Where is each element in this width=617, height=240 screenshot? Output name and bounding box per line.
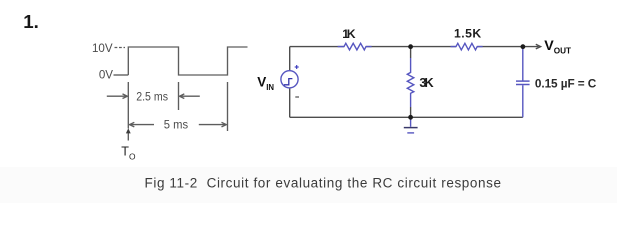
svg-text:5 ms: 5 ms [164,118,188,132]
svg-text:TO: TO [121,145,136,162]
svg-text:VOUT: VOUT [544,38,571,55]
svg-text:1.: 1. [23,11,39,32]
svg-text:10V: 10V [92,42,113,55]
svg-text:1.5K: 1.5K [454,27,481,41]
svg-text:1K: 1K [342,27,355,41]
svg-text:3K: 3K [419,75,434,90]
svg-text:VIN: VIN [257,75,274,93]
svg-text:0V: 0V [99,69,113,82]
svg-text:0.15 µF = C: 0.15 µF = C [535,76,597,90]
svg-text:Fig 11-2 Circuit for evaluati: Fig 11-2 Circuit for evaluating the RC c… [145,176,502,191]
svg-text:2.5 ms: 2.5 ms [136,89,168,103]
